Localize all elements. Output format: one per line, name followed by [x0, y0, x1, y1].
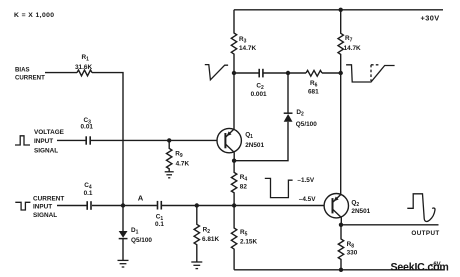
resistor R1 [77, 70, 92, 76]
wire +30V top rail [234, 9, 443, 11]
svg-text:K = X 1,000: K = X 1,000 [14, 12, 55, 19]
svg-text:SIGNAL: SIGNAL [34, 147, 58, 154]
wire -6V bottom rail [234, 269, 444, 271]
svg-text:INPUT: INPUT [33, 203, 52, 210]
wire R3 junction to C2 [234, 72, 259, 74]
wire current input to C4 [57, 205, 87, 207]
wire C3 to Q1 base [91, 139, 217, 141]
waveform output pulse glyph [407, 194, 435, 222]
svg-text:D1: D1 [131, 227, 139, 236]
svg-text:R6: R6 [310, 80, 318, 89]
diode D1 [122, 206, 124, 232]
node R4 bottom junction [232, 203, 236, 207]
node R3-C2-Q1 junction [232, 71, 236, 75]
svg-text:A: A [138, 194, 144, 203]
svg-text:BIAS: BIAS [15, 67, 30, 74]
resistor R8 [338, 225, 343, 270]
wire Q1 emitter to junction [233, 73, 235, 130]
resistor R7 [338, 10, 343, 73]
capacitor C1 [158, 201, 162, 210]
waveform -1.5V pulse glyph [265, 178, 293, 197]
svg-text:VOLTAGE: VOLTAGE [34, 129, 65, 136]
svg-text:2N501: 2N501 [245, 142, 264, 149]
node Q1 collector junction [232, 159, 236, 163]
svg-text:82: 82 [240, 183, 248, 190]
waveform sawtooth glyph at Q1 collector [205, 65, 228, 80]
node Q2 collector junction [339, 223, 343, 227]
label VOLTAGE INPUT SIGNAL [34, 129, 65, 155]
svg-text:330: 330 [347, 250, 358, 257]
svg-text:2.15K: 2.15K [240, 238, 257, 245]
svg-text:R9: R9 [175, 151, 183, 160]
node R2 junction [195, 203, 199, 207]
svg-text:681: 681 [308, 89, 319, 96]
ground under D1 [118, 260, 129, 267]
wire R6 to R7 line [322, 72, 341, 74]
wire C4 to node A [92, 205, 157, 207]
svg-text:6.81K: 6.81K [202, 236, 219, 243]
resistor R9 [167, 140, 172, 171]
node R7 top rail junction [339, 8, 343, 12]
svg-text:4.7K: 4.7K [176, 160, 190, 167]
wire C2 to D2 junction [264, 72, 307, 74]
node R9 junction [167, 138, 171, 142]
svg-text:R8: R8 [347, 241, 355, 250]
wire bias input [45, 72, 77, 74]
svg-text:0.001: 0.001 [251, 91, 267, 98]
svg-text:R2: R2 [203, 226, 211, 235]
resistor R4 [231, 161, 236, 206]
wire C1 to Q2 base [162, 205, 324, 207]
capacitor C2 [259, 69, 263, 78]
svg-text:Q1: Q1 [245, 131, 253, 140]
resistor R6 [306, 70, 322, 76]
svg-text:Q5/100: Q5/100 [296, 121, 317, 128]
svg-text:R1: R1 [82, 54, 90, 63]
wire output [341, 224, 439, 226]
svg-text:31.6K: 31.6K [75, 64, 92, 71]
wire R1 to node A vertical [92, 73, 123, 206]
svg-text:R4: R4 [240, 174, 248, 183]
node R8 bottom rail junction [339, 268, 343, 272]
node D2 junction [286, 71, 290, 75]
svg-text:14.7K: 14.7K [344, 45, 361, 52]
capacitor C3 [86, 136, 90, 144]
node A junction [121, 203, 125, 207]
wire Q2 collector down [340, 218, 342, 225]
svg-text:CURRENT: CURRENT [15, 75, 45, 82]
svg-text:SIGNAL: SIGNAL [33, 212, 57, 219]
svg-text:0.1: 0.1 [84, 190, 93, 197]
svg-text:OUTPUT: OUTPUT [411, 230, 439, 237]
resistor R5 [231, 206, 236, 270]
ground under R9 [165, 172, 174, 178]
svg-text:SeekIC.com: SeekIC.com [391, 262, 449, 274]
wire voltage input to C3 [57, 139, 86, 141]
label CURRENT INPUT SIGNAL [33, 195, 64, 218]
wire R7 to Q2 emitter [340, 73, 342, 195]
wire collector junction to D2 anode [234, 122, 288, 161]
svg-text:14.7K: 14.7K [239, 45, 256, 52]
node R6-R7 junction [339, 71, 343, 75]
label BIAS CURRENT [15, 67, 45, 82]
svg-text:C2: C2 [256, 83, 264, 92]
transistor Q2 [324, 194, 348, 218]
svg-text:Q5/100: Q5/100 [131, 237, 152, 244]
svg-text:CURRENT: CURRENT [33, 195, 64, 202]
svg-text:INPUT: INPUT [34, 138, 53, 145]
svg-text:R3: R3 [239, 36, 247, 45]
waveform negative pulse glyph [15, 202, 30, 210]
capacitor C4 [87, 201, 91, 210]
svg-text:2N501: 2N501 [351, 208, 370, 215]
svg-text:–1.5V: –1.5V [297, 177, 314, 184]
svg-text:+30V: +30V [421, 14, 440, 23]
resistor R2 [194, 206, 199, 262]
ground under R2 [191, 262, 202, 269]
wire Q1 collector down [233, 152, 235, 160]
transistor Q1 [217, 128, 241, 152]
svg-text:R7: R7 [345, 35, 353, 44]
svg-text:Q2: Q2 [351, 200, 359, 209]
waveform positive pulse glyph [15, 136, 30, 145]
diode D2 [287, 73, 289, 113]
resistor R3 [231, 10, 236, 73]
svg-text:0.01: 0.01 [81, 124, 94, 131]
svg-text:–4.5V: –4.5V [299, 196, 316, 203]
svg-text:R5: R5 [240, 229, 248, 238]
svg-text:D2: D2 [296, 109, 304, 118]
waveform R7 pulse glyph with dashed recovery [346, 65, 395, 82]
svg-text:0.1: 0.1 [155, 221, 164, 228]
